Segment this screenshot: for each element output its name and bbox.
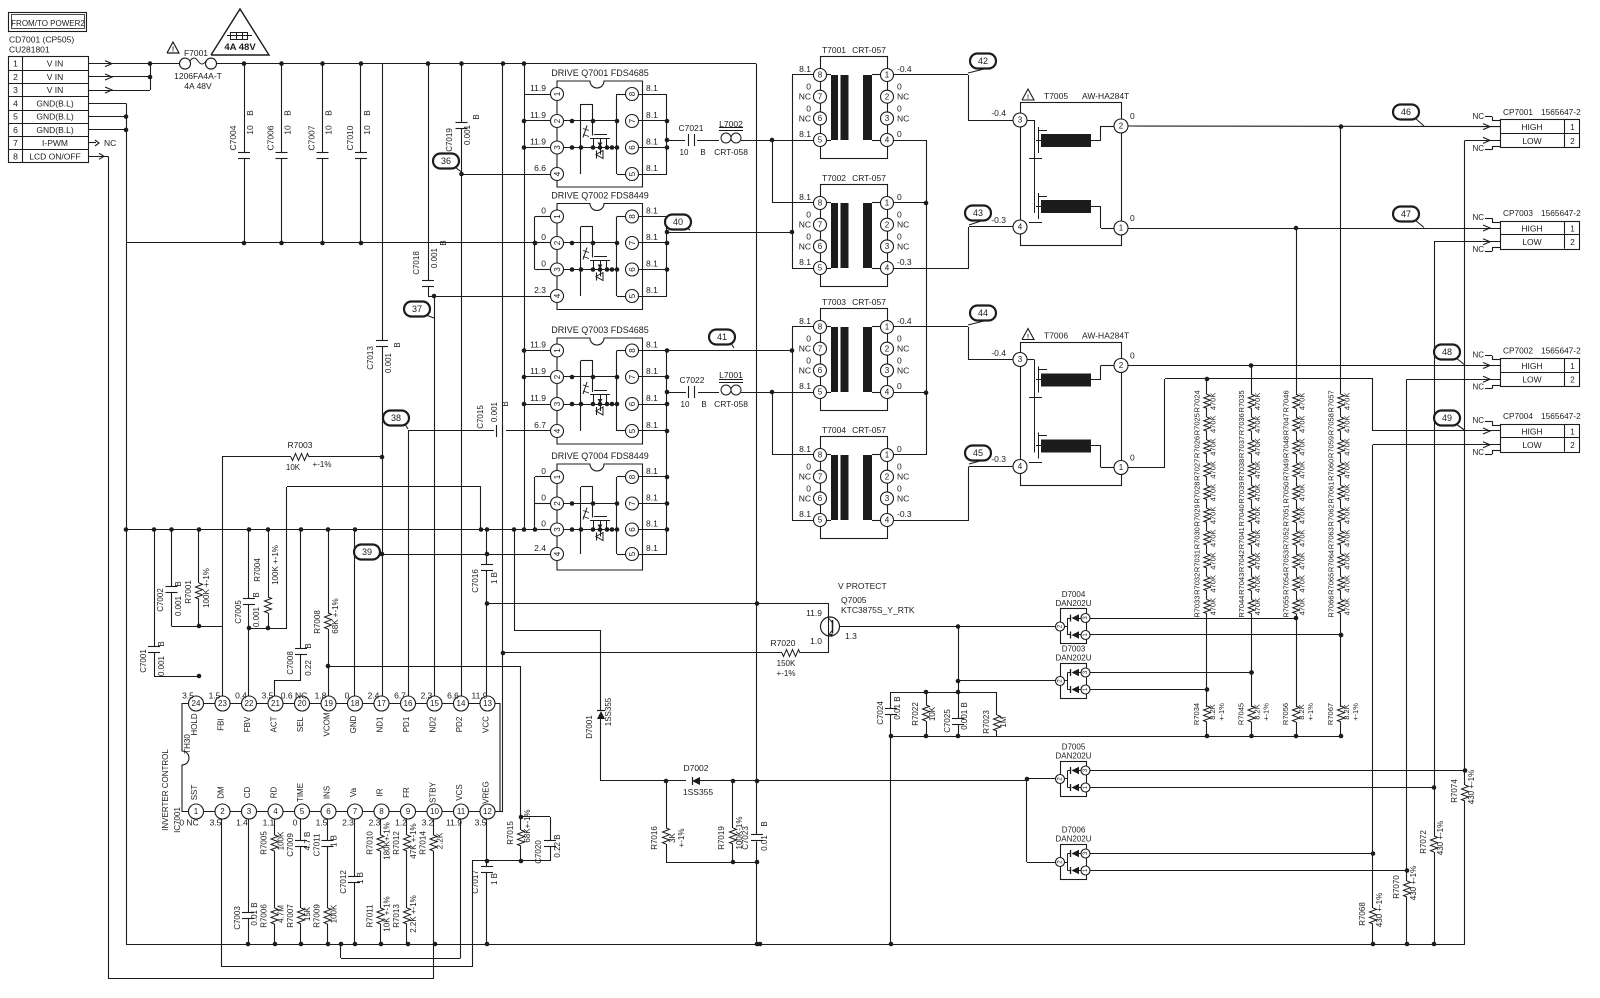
wire Q7001 pin4 gate / node 36 xyxy=(462,174,551,176)
svg-text:1: 1 xyxy=(1570,123,1575,132)
pin 3 of D7003 xyxy=(1081,668,1090,677)
pin 19 of IC7001 xyxy=(315,691,336,737)
svg-text:R7032: R7032 xyxy=(1193,573,1202,595)
svg-text:3: 3 xyxy=(553,145,562,150)
svg-text:4: 4 xyxy=(1018,462,1023,471)
svg-text:6: 6 xyxy=(628,267,637,272)
capacitor C7025 xyxy=(943,692,969,738)
svg-text:4.7M: 4.7M xyxy=(277,905,286,923)
svg-text:45: 45 xyxy=(973,448,983,458)
svg-text:NC: NC xyxy=(1472,448,1484,457)
svg-text:R7068: R7068 xyxy=(1358,902,1367,926)
wire main +48V top bus xyxy=(150,63,756,65)
svg-text:D7003: D7003 xyxy=(1062,645,1086,654)
svg-text:8.2K: 8.2K xyxy=(1297,704,1306,719)
svg-text:R7040: R7040 xyxy=(1237,504,1246,526)
resistor R7062 470K xyxy=(1327,504,1352,527)
node 41 badge xyxy=(709,330,735,349)
pin 3 of T7005 xyxy=(1013,113,1027,127)
svg-text:1: 1 xyxy=(1570,428,1575,437)
svg-text:470K: 470K xyxy=(1253,552,1262,570)
svg-text:C7004: C7004 xyxy=(228,125,238,150)
svg-text:8.1: 8.1 xyxy=(646,340,658,350)
svg-text:CP7002: CP7002 xyxy=(1503,346,1533,356)
svg-text:0.22: 0.22 xyxy=(304,660,313,676)
pin 2 of T7004 secondary xyxy=(881,462,910,484)
svg-text:18: 18 xyxy=(351,699,360,708)
node 37 badge xyxy=(404,302,434,319)
svg-text:R7015: R7015 xyxy=(506,821,515,845)
wire sense resistor columns xyxy=(1371,771,1465,947)
svg-text:10: 10 xyxy=(324,125,334,135)
svg-text:3K: 3K xyxy=(668,832,677,842)
svg-text:2: 2 xyxy=(553,501,562,506)
svg-text:B: B xyxy=(245,110,255,116)
svg-text:8.1: 8.1 xyxy=(646,393,658,403)
svg-text:1.8: 1.8 xyxy=(315,691,327,701)
capacitor C7005 xyxy=(234,530,261,704)
pin 6 of Q7004 xyxy=(626,519,659,537)
pin 8 of T7001 xyxy=(799,64,826,82)
svg-text:3.5: 3.5 xyxy=(182,691,194,701)
svg-text:R7023: R7023 xyxy=(982,710,991,734)
svg-text:0.001: 0.001 xyxy=(490,401,499,422)
resistor R7055 470K xyxy=(1282,595,1307,618)
svg-text:470K: 470K xyxy=(1343,598,1352,616)
wire D7004 pin2 from Q7005 xyxy=(840,624,1056,629)
svg-text:2: 2 xyxy=(553,240,562,245)
svg-text:ND2: ND2 xyxy=(429,716,438,733)
pin 6 of T7001 xyxy=(799,103,827,125)
capacitor C7008 xyxy=(275,530,314,704)
svg-text:T7003: T7003 xyxy=(822,297,846,307)
wire Q7004 pin4 gate node 39 xyxy=(380,552,551,557)
svg-text:0: 0 xyxy=(897,355,902,365)
svg-text:LOW: LOW xyxy=(1522,237,1541,247)
svg-text:R7046: R7046 xyxy=(1282,390,1291,412)
svg-text:430 +-1%: 430 +-1% xyxy=(1467,770,1476,804)
svg-text:-0.3: -0.3 xyxy=(991,215,1006,225)
IC U IC7001 INVERTER CONTROL outline xyxy=(182,704,500,812)
resistor R7065 470K xyxy=(1327,572,1352,595)
svg-text:R7012: R7012 xyxy=(392,831,401,855)
svg-text:R7001: R7001 xyxy=(184,580,193,604)
svg-text:8.1: 8.1 xyxy=(646,285,658,295)
svg-text:C7010: C7010 xyxy=(345,125,355,150)
capacitor C7002 xyxy=(156,530,183,627)
svg-text:8.2K: 8.2K xyxy=(1253,704,1262,719)
svg-text:5: 5 xyxy=(628,293,637,298)
svg-text:NC: NC xyxy=(897,220,909,230)
svg-text:CRT-058: CRT-058 xyxy=(714,147,748,157)
resistor R7038 470K xyxy=(1237,458,1262,481)
svg-text:0.001 B: 0.001 B xyxy=(960,702,969,730)
svg-text:1: 1 xyxy=(885,199,890,208)
svg-text:CRT-057: CRT-057 xyxy=(852,297,886,307)
svg-text:0: 0 xyxy=(345,691,350,701)
pin 1 of T7005 xyxy=(1114,213,1135,235)
resistor R7037 470K xyxy=(1237,436,1262,459)
pin 8 of Q7003 xyxy=(626,340,659,358)
wire D7002 net xyxy=(601,779,1027,784)
wire GND vertical rail xyxy=(126,103,128,944)
pin 2 of Q7001 xyxy=(530,110,563,128)
svg-text:R7006: R7006 xyxy=(260,904,269,928)
svg-text:0: 0 xyxy=(541,493,546,503)
svg-text:LOW: LOW xyxy=(1522,440,1541,450)
svg-text:R7024: R7024 xyxy=(1193,390,1202,412)
pin 1 of D7004 xyxy=(1081,631,1090,640)
transformer T7002 outline xyxy=(821,185,888,287)
pin 3 of IC7001 xyxy=(236,787,256,828)
label -0.3 at T7006 pin4 xyxy=(991,454,1006,464)
svg-text:470K: 470K xyxy=(1298,415,1307,433)
wire col2 top riser xyxy=(1251,366,1253,391)
svg-text:44: 44 xyxy=(978,308,988,318)
wire R7015 C7020 bottom rail xyxy=(472,859,550,864)
svg-text:DRIVE Q7001 FDS4685: DRIVE Q7001 FDS4685 xyxy=(551,68,649,78)
svg-text:100K +-1%: 100K +-1% xyxy=(271,545,280,585)
svg-text:CRT-057: CRT-057 xyxy=(852,45,886,55)
svg-text:NC: NC xyxy=(1472,416,1484,425)
capacitor C7001 xyxy=(139,530,201,679)
svg-text:47: 47 xyxy=(1401,209,1411,219)
svg-text:R7039: R7039 xyxy=(1237,482,1246,504)
svg-text:470K: 470K xyxy=(1209,415,1218,433)
pin 2 of Q7004 xyxy=(541,493,563,511)
svg-text:C7011: C7011 xyxy=(313,833,322,857)
svg-text:1.3: 1.3 xyxy=(845,631,857,641)
wire T7005 pin1 to CP7003 HIGH xyxy=(1128,226,1501,231)
svg-text:3.2: 3.2 xyxy=(422,818,434,828)
connector CP7002 body xyxy=(1472,351,1580,392)
svg-text:11.9: 11.9 xyxy=(530,137,546,147)
svg-text:4: 4 xyxy=(553,171,562,176)
wire node40 to T7001 pin8 and T7002 pin5 xyxy=(790,75,814,269)
svg-text:NC: NC xyxy=(897,113,909,123)
warning triangle small xyxy=(167,42,179,54)
pin 5 of T7003 xyxy=(799,381,826,399)
svg-text:C7018: C7018 xyxy=(412,251,421,275)
pin 1 of D7005 xyxy=(1081,783,1090,792)
resistor R7043 470K xyxy=(1237,572,1262,595)
svg-text:10: 10 xyxy=(680,148,689,157)
T7002 windings xyxy=(820,203,887,269)
svg-text:C7015: C7015 xyxy=(476,405,485,429)
svg-text:R7049: R7049 xyxy=(1282,459,1291,481)
svg-text:8.1: 8.1 xyxy=(646,493,658,503)
wire VCOM to R7015 column xyxy=(328,666,521,668)
wire col3 top riser xyxy=(1296,228,1298,390)
svg-text:6: 6 xyxy=(628,401,637,406)
resistor R7015 68K xyxy=(506,666,532,861)
node 48 badge xyxy=(1434,345,1465,366)
svg-text:0: 0 xyxy=(541,519,546,529)
svg-text:R7061: R7061 xyxy=(1327,482,1336,504)
svg-text:0: 0 xyxy=(897,231,902,241)
svg-text:R7070: R7070 xyxy=(1392,875,1401,899)
svg-text:150K: 150K xyxy=(777,659,796,668)
node 46 badge xyxy=(1393,105,1424,127)
T7006 windings xyxy=(1027,360,1115,468)
wire pin15 ND2 riser xyxy=(434,296,436,704)
svg-text:NC: NC xyxy=(897,241,909,251)
resistor R7026 470K xyxy=(1193,436,1218,459)
svg-text:HIGH: HIGH xyxy=(1521,224,1542,234)
svg-text:1565647-2: 1565647-2 xyxy=(1541,107,1581,117)
svg-text:CU281801: CU281801 xyxy=(9,45,50,55)
svg-text:VREG: VREG xyxy=(482,781,491,804)
resistor R7009 xyxy=(313,904,339,928)
svg-text:NC: NC xyxy=(897,92,909,102)
dual diode D7005 DAN202U labels xyxy=(1055,743,1091,761)
resistor R7034 8.2K xyxy=(1192,618,1226,738)
wire connector pin8 LCD ON/OFF xyxy=(89,153,109,979)
svg-text:T7002: T7002 xyxy=(822,173,846,183)
pin 7 of Q7002 xyxy=(626,232,659,250)
connector pin7 NC stub xyxy=(89,138,116,148)
svg-text:8.1: 8.1 xyxy=(646,206,658,216)
resistor R7056 8.2K xyxy=(1281,616,1315,739)
wire L7002 node to T7001 pin5 and T7002 pin8 xyxy=(770,138,814,203)
svg-text:470K: 470K xyxy=(1209,461,1218,479)
svg-text:R7053: R7053 xyxy=(1282,550,1291,572)
svg-text:49: 49 xyxy=(1442,413,1452,423)
svg-text:3: 3 xyxy=(1018,116,1023,125)
svg-text:1: 1 xyxy=(553,91,562,96)
resistor R7064 470K xyxy=(1327,550,1352,573)
svg-text:2: 2 xyxy=(553,118,562,123)
svg-text:+-1%: +-1% xyxy=(677,829,686,848)
svg-text:C7012: C7012 xyxy=(339,870,348,894)
wire CP7004 LOW from R7068 column xyxy=(1373,445,1502,854)
wire D7003 pin2 drop xyxy=(956,627,1056,693)
arrows into CP7002 xyxy=(1483,363,1490,383)
node 45 badge xyxy=(965,446,991,465)
pin 5 of T7001 xyxy=(799,129,826,147)
resistor R7012 xyxy=(392,823,418,858)
svg-text:2.4: 2.4 xyxy=(534,543,546,553)
svg-text:GND(B.L): GND(B.L) xyxy=(36,112,73,122)
svg-text:5: 5 xyxy=(628,551,637,556)
svg-text:2.3: 2.3 xyxy=(342,818,354,828)
svg-text:NC: NC xyxy=(799,493,811,503)
resistor R7044 470K xyxy=(1237,595,1262,618)
svg-text:2: 2 xyxy=(885,220,890,229)
svg-text:6.6: 6.6 xyxy=(534,163,546,173)
svg-text:6: 6 xyxy=(628,527,637,532)
pin 6 of Q7002 xyxy=(626,259,659,277)
pin 13 of IC7001 xyxy=(472,691,495,733)
svg-text:Va: Va xyxy=(349,787,358,797)
resistor R7014 xyxy=(419,831,445,855)
pin 20 of IC7001 xyxy=(281,691,310,733)
svg-text:470K: 470K xyxy=(1209,529,1218,547)
diode D7002 1SS355 xyxy=(683,763,714,797)
pin 6 of Q7001 xyxy=(626,137,659,155)
svg-text:CP7004: CP7004 xyxy=(1503,411,1533,421)
wire GND(B.L) horizontal bus xyxy=(126,241,537,246)
svg-text:37: 37 xyxy=(412,304,422,314)
svg-text:R7025: R7025 xyxy=(1193,413,1202,435)
resistor R7006 xyxy=(260,904,286,928)
svg-text:R7013: R7013 xyxy=(392,904,401,928)
svg-text:7: 7 xyxy=(628,240,637,245)
svg-text:470K: 470K xyxy=(1253,461,1262,479)
svg-text:HIGH: HIGH xyxy=(1521,361,1542,371)
svg-text:!: ! xyxy=(1027,334,1029,341)
svg-text:NC: NC xyxy=(799,344,811,354)
svg-text:-0.4: -0.4 xyxy=(897,64,912,74)
svg-text:4: 4 xyxy=(885,516,890,525)
svg-text:1: 1 xyxy=(1119,463,1124,472)
svg-text:C7002: C7002 xyxy=(156,588,165,612)
svg-text:8.1: 8.1 xyxy=(799,192,811,202)
svg-text:R7064: R7064 xyxy=(1327,550,1336,572)
pin 5 of IC7001 xyxy=(293,783,310,828)
pin 1 of D7003 xyxy=(1081,685,1090,694)
svg-text:R7038: R7038 xyxy=(1237,459,1246,481)
svg-text:8.1: 8.1 xyxy=(646,466,658,476)
svg-text:R7037: R7037 xyxy=(1237,436,1246,458)
svg-text:8: 8 xyxy=(628,214,637,219)
svg-text:470K: 470K xyxy=(1209,484,1218,502)
svg-text:7: 7 xyxy=(353,807,358,816)
svg-text:NC: NC xyxy=(799,472,811,482)
T7005 windings xyxy=(1027,120,1115,229)
svg-text:B: B xyxy=(472,114,481,119)
pin 3 of T7006 xyxy=(1013,353,1027,367)
pin 3 of T7002 secondary xyxy=(881,231,910,253)
svg-text:8.1: 8.1 xyxy=(799,316,811,326)
svg-text:11.9: 11.9 xyxy=(446,818,462,828)
svg-text:1: 1 xyxy=(885,323,890,332)
svg-text:R7041: R7041 xyxy=(1237,527,1246,549)
resistor R7025 470K xyxy=(1193,413,1218,436)
svg-text:12: 12 xyxy=(483,807,492,816)
svg-text:39: 39 xyxy=(362,547,372,557)
svg-text:0: 0 xyxy=(897,381,902,391)
wire pin17 ND1 riser xyxy=(382,554,384,704)
label T7001 CRT-057 xyxy=(822,45,886,55)
pin 2 of T7003 secondary xyxy=(881,334,910,356)
svg-text:INVERTER CONTROL: INVERTER CONTROL xyxy=(161,749,170,831)
label T7006 AW-HA284T xyxy=(1044,331,1129,341)
wire main ground bus xyxy=(126,942,1465,947)
wire bus jog to D7001 xyxy=(514,530,601,631)
connector CD7001 body xyxy=(9,57,90,164)
svg-text:470K: 470K xyxy=(1253,507,1262,525)
svg-text:LOW: LOW xyxy=(1522,136,1541,146)
svg-text:CP7001: CP7001 xyxy=(1503,107,1533,117)
svg-text:0: 0 xyxy=(897,334,902,344)
svg-text:GND(B.L): GND(B.L) xyxy=(36,98,73,108)
pin 3 of Q7002 xyxy=(541,259,563,277)
svg-text:B: B xyxy=(701,400,706,409)
wire control bus above IC xyxy=(124,527,551,532)
pin 4 of T7006 xyxy=(1013,460,1027,474)
svg-text:0: 0 xyxy=(1130,213,1135,223)
svg-text:C7022: C7022 xyxy=(679,375,704,385)
svg-text:2: 2 xyxy=(1570,137,1575,146)
svg-text:1 B: 1 B xyxy=(490,873,499,885)
resistor R7004 100K xyxy=(253,530,280,629)
svg-text:8.2K: 8.2K xyxy=(1208,704,1217,719)
pin 2 of D7006 xyxy=(1056,858,1065,867)
svg-text:R7047: R7047 xyxy=(1282,413,1291,435)
pin 23 of IC7001 xyxy=(209,691,230,731)
wire protect bank top rail xyxy=(891,690,997,695)
pin 9 of IC7001 xyxy=(395,787,415,828)
svg-text:10: 10 xyxy=(430,807,439,816)
svg-text:R7055: R7055 xyxy=(1282,596,1291,618)
svg-text:Q7005: Q7005 xyxy=(841,595,867,605)
svg-text:0: 0 xyxy=(897,483,902,493)
wire T7006 pin2 to CP7002 HIGH xyxy=(1128,363,1501,368)
pin 5 of Q7002 xyxy=(626,285,659,303)
svg-text:R7010: R7010 xyxy=(366,831,375,855)
capacitor C7003 xyxy=(233,902,259,929)
inner wiring of Q7002 xyxy=(564,217,626,297)
pin 6 of Q7003 xyxy=(626,393,659,411)
pin 4 of T7001 secondary xyxy=(881,129,903,147)
svg-text:T7005: T7005 xyxy=(1044,91,1068,101)
svg-text:0.001: 0.001 xyxy=(174,595,183,616)
pin 3 of Q7003 xyxy=(530,393,563,411)
svg-text:2.3: 2.3 xyxy=(369,818,381,828)
pin 7 of T7002 xyxy=(799,210,827,232)
svg-text:3: 3 xyxy=(553,527,562,532)
svg-text:2: 2 xyxy=(885,472,890,481)
svg-text:R7074: R7074 xyxy=(1450,779,1459,803)
svg-text:1565647-2: 1565647-2 xyxy=(1541,346,1581,356)
resistor R7074 430 xyxy=(1450,770,1476,804)
svg-text:HOLD: HOLD xyxy=(190,713,199,735)
resistor R7022 10K xyxy=(911,692,937,738)
svg-text:DAN202U: DAN202U xyxy=(1055,752,1091,761)
svg-text:5: 5 xyxy=(13,112,18,122)
svg-text:0: 0 xyxy=(897,129,902,139)
pin 12 of IC7001 xyxy=(475,781,495,827)
svg-text:TH30: TH30 xyxy=(183,734,192,754)
svg-text:11.9: 11.9 xyxy=(530,340,546,350)
svg-text:V IN: V IN xyxy=(47,72,64,82)
svg-text:R7003: R7003 xyxy=(287,440,312,450)
svg-text:C7013: C7013 xyxy=(366,346,375,370)
svg-text:C7008: C7008 xyxy=(286,651,295,675)
wire Q7003 output node 41 xyxy=(665,348,792,353)
svg-text:0.6 NC: 0.6 NC xyxy=(281,691,307,701)
resistor R7063 470K xyxy=(1327,527,1352,550)
svg-text:C7001: C7001 xyxy=(139,649,148,673)
svg-text:0: 0 xyxy=(541,466,546,476)
resistor R7046 470K xyxy=(1282,390,1307,413)
resistor R7049 470K xyxy=(1282,458,1307,481)
svg-text:0: 0 xyxy=(806,231,811,241)
svg-text:4.7 B: 4.7 B xyxy=(303,832,312,851)
wire Q7001 drain rail xyxy=(639,94,670,175)
wire pin18 GND riser xyxy=(354,530,356,704)
label T7003 CRT-057 xyxy=(822,297,886,307)
svg-text:R7060: R7060 xyxy=(1327,459,1336,481)
pin 2 of T7005 xyxy=(1114,111,1135,133)
svg-text:5: 5 xyxy=(628,428,637,433)
svg-text:B: B xyxy=(283,110,293,116)
capacitor C7004 xyxy=(228,61,255,245)
capacitor C7013 xyxy=(366,64,402,554)
svg-text:D7006: D7006 xyxy=(1062,826,1086,835)
resistor R7020 150K xyxy=(503,638,800,678)
